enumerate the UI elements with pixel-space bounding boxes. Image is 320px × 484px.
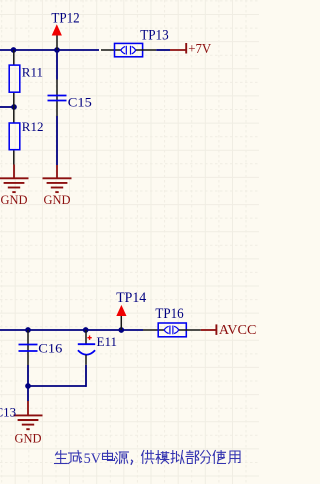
capacitor C15 pins [56, 80, 58, 117]
power port AVCC [215, 324, 217, 335]
ground stem [13, 165, 15, 179]
node junction [54, 47, 60, 53]
caption char 生 [60, 451, 62, 464]
svg-text:TP13: TP13 [140, 27, 169, 43]
capacitor E11 pin 1 [85, 330, 87, 344]
wire [85, 365, 87, 387]
test point TP13 pin 2 [136, 49, 156, 51]
svg-text:+7V: +7V [188, 42, 211, 57]
test point TP16 pin 2 [179, 329, 201, 331]
test point TP13 pin 1 [101, 49, 121, 51]
caption char 电 [107, 451, 109, 461]
wire [56, 50, 58, 80]
wire [27, 386, 29, 401]
test point TP13 [115, 43, 143, 56]
caption char 用 [229, 451, 230, 464]
caption char 源 [116, 453, 117, 455]
wire to power port [170, 49, 186, 51]
test point TP14 [116, 305, 126, 316]
capacitor C16 pins [27, 330, 29, 365]
caption char 使 [213, 451, 215, 464]
node junction [118, 327, 124, 333]
wire [0, 106, 14, 108]
wire [28, 385, 86, 387]
caption char 部 [187, 451, 193, 453]
resistor R12 [9, 123, 20, 150]
capacitor E11 plus sign [87, 337, 91, 339]
wire [27, 365, 29, 387]
caption char 拟 [171, 451, 175, 464]
ground stem [27, 401, 29, 415]
wire [156, 49, 170, 51]
node junction [11, 47, 17, 53]
resistor R11 pin 1 [13, 50, 15, 65]
ground [14, 414, 43, 416]
capacitor C16 [19, 344, 38, 346]
capacitor E11 [78, 343, 95, 345]
caption char 分 [201, 451, 205, 456]
caption char 模 [156, 451, 161, 464]
resistor R12 pin 2 [13, 151, 15, 165]
caption char 成 [69, 452, 82, 454]
resistor R11 pin 2 [13, 93, 15, 107]
test point TP12 pin [56, 36, 58, 51]
svg-text:AVCC: AVCC [219, 323, 257, 338]
svg-text:E11: E11 [97, 334, 117, 349]
svg-text:R12: R12 [22, 119, 44, 134]
node junction [83, 327, 89, 333]
node junction [11, 104, 17, 110]
svg-text:TP14: TP14 [116, 290, 147, 306]
svg-text:TP12: TP12 [51, 10, 79, 26]
wire [0, 49, 99, 51]
svg-text:C15: C15 [68, 94, 92, 109]
svg-text:C16: C16 [38, 341, 63, 356]
node junction [25, 327, 31, 333]
svg-text:GND: GND [44, 193, 71, 207]
node junction [25, 383, 31, 389]
resistor R11 [9, 65, 20, 92]
ground [0, 177, 29, 179]
ground stem [56, 165, 58, 178]
svg-text:GND: GND [15, 432, 42, 446]
svg-text:GND: GND [1, 193, 28, 207]
wire to power port [201, 329, 217, 331]
power port +7V [185, 43, 187, 54]
test point TP14 pin [120, 316, 122, 330]
svg-text:TP16: TP16 [155, 306, 183, 322]
svg-text:R11: R11 [22, 65, 43, 80]
capacitor E11 pin 2 [85, 355, 87, 365]
capacitor C15 [48, 95, 67, 97]
resistor R12 pin 1 [13, 107, 15, 123]
test point TP12 [52, 24, 62, 35]
caption comma [131, 460, 132, 464]
ground [43, 177, 72, 179]
svg-text:5V: 5V [84, 451, 102, 467]
caption char 供 [142, 451, 144, 464]
test point TP16 [158, 323, 186, 337]
test point TP16 pin 1 [143, 329, 164, 331]
svg-text:C13: C13 [0, 405, 16, 420]
wire [0, 329, 143, 331]
wire [56, 116, 58, 165]
